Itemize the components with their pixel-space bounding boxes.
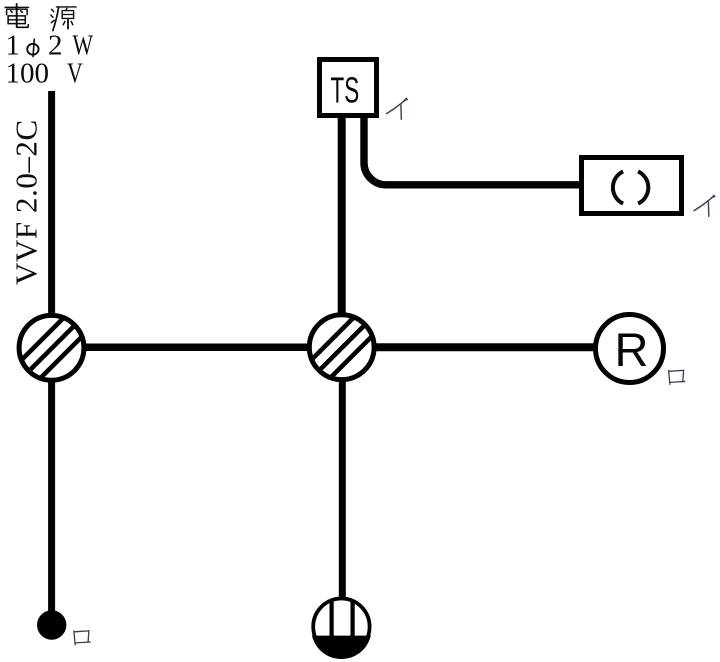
wire: TS to fan box (curved) xyxy=(364,116,581,185)
svg-text:R: R xyxy=(615,323,649,376)
joint box center xyxy=(309,315,374,380)
wire: TS down to center joint box xyxy=(338,116,346,316)
svg-text:V: V xyxy=(67,57,83,90)
label ロ for R xyxy=(669,370,685,384)
lamp (filled circle) xyxy=(37,610,66,639)
wire: left joint box down to lamp xyxy=(48,380,55,612)
source label 源 xyxy=(51,7,76,31)
svg-text:2: 2 xyxy=(48,30,63,62)
timer switch TS box xyxy=(320,60,377,116)
svg-text:100: 100 xyxy=(6,58,50,90)
svg-text:TS: TS xyxy=(331,71,360,111)
wire: center joint box to receptacle R xyxy=(374,343,596,351)
receptacle R circle xyxy=(596,315,664,383)
wire: left joint box to center joint box xyxy=(84,344,310,352)
label ロ for lamp xyxy=(74,631,90,645)
joint box left xyxy=(19,315,84,380)
wire: source down to left joint box xyxy=(48,91,55,316)
ceiling fixture (circle, two bars, filled base) xyxy=(313,599,369,655)
fan symbol arcs ( ) xyxy=(613,171,648,203)
label イ for TS xyxy=(387,98,408,119)
source label 電 xyxy=(5,4,29,27)
label イ for fan xyxy=(694,195,715,216)
svg-text:VVF 2.0–2C: VVF 2.0–2C xyxy=(9,119,44,285)
wire: center joint box down to ceiling fixture xyxy=(339,379,346,600)
fan box xyxy=(582,158,682,214)
